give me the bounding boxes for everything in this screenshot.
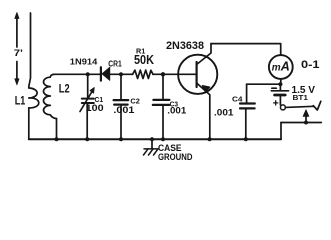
capacitor C2 plates <box>114 99 129 101</box>
svg-text:1N914: 1N914 <box>70 57 98 67</box>
capacitor C1 bottom lead <box>86 103 88 139</box>
battery BT1 short plate <box>275 94 286 97</box>
capacitor C4 bottom lead <box>245 108 247 139</box>
capacitor C2 bottom lead <box>120 105 122 140</box>
inductor L2 <box>43 74 56 118</box>
capacitor C4 plates <box>240 102 255 104</box>
capacitor C1 variable arrow <box>80 92 92 112</box>
antenna dimension arrow lower <box>15 62 19 85</box>
svg-text:.001: .001 <box>113 105 135 116</box>
node ground tap junction <box>150 137 154 141</box>
inductor L1 <box>29 87 39 108</box>
svg-text:.001: .001 <box>167 105 187 116</box>
svg-text:7': 7' <box>14 48 23 58</box>
node emitter-rail junction <box>208 137 212 141</box>
capacitor C1 plates <box>82 98 94 100</box>
svg-text:2N3638: 2N3638 <box>166 40 204 52</box>
meter M1 circle <box>269 55 293 79</box>
svg-text:C4: C4 <box>232 94 243 103</box>
wire L2 bottom lead <box>56 119 58 140</box>
svg-text:C2: C2 <box>130 96 139 105</box>
wire bottom ground rail <box>29 138 281 140</box>
svg-text:GROUND: GROUND <box>158 152 193 163</box>
switch S1 blade end tick <box>313 101 321 110</box>
battery BT1 bottom lead <box>279 96 281 105</box>
diode CR1 cathode bar <box>100 67 102 80</box>
switch S1 blade <box>285 106 314 107</box>
transistor Q1 collector <box>197 44 211 65</box>
wire C4 to battery node <box>247 83 281 85</box>
antenna wire <box>29 13 31 87</box>
node switch contact junction <box>304 121 308 125</box>
capacitor C4 top lead <box>246 84 248 103</box>
svg-text:L1: L1 <box>15 96 26 108</box>
wire step to ground rail <box>280 123 282 140</box>
battery minus sign <box>272 87 277 89</box>
svg-text:L2: L2 <box>59 84 70 96</box>
svg-text:50K: 50K <box>134 53 154 67</box>
capacitor C3 bottom lead <box>162 105 164 139</box>
battery plus sign <box>274 101 278 105</box>
wire top rail to meter <box>211 44 281 56</box>
battery BT1 long plate <box>271 90 288 92</box>
node C3-rail junction <box>161 137 165 141</box>
wire diode to R1 <box>110 73 133 75</box>
transistor Q1 emitter <box>197 83 210 139</box>
svg-text:BT1: BT1 <box>293 93 309 102</box>
node C4-rail junction <box>244 137 248 141</box>
battery BT1 top lead <box>279 84 281 90</box>
ground chassis symbol <box>151 139 153 148</box>
transistor Q1 emitter arrow <box>202 86 209 92</box>
wire meter bottom lead <box>280 79 282 84</box>
svg-text:mA: mA <box>272 60 290 74</box>
svg-text:0-1: 0-1 <box>301 59 320 71</box>
node C1 top junction <box>86 72 90 76</box>
switch S1 pivot circle <box>280 105 285 110</box>
wire top: L2 to diode <box>53 73 101 75</box>
wire R1 to transistor base <box>153 73 197 75</box>
transistor Q1 base bar <box>196 62 198 87</box>
switch S1 contact arrow <box>303 110 309 117</box>
svg-text:100: 100 <box>86 103 104 114</box>
node R1/C3/base junction <box>161 72 165 76</box>
capacitor C3 plates <box>153 99 169 101</box>
diode CR1 triangle <box>102 67 110 80</box>
node C1-rail junction <box>85 137 89 141</box>
capacitor C2 top lead <box>120 74 122 99</box>
antenna dimension arrow upper <box>15 13 19 48</box>
transistor Q1 circle <box>178 55 217 94</box>
wire L1 bottom lead <box>28 108 30 139</box>
node L2-rail junction <box>55 137 59 141</box>
resistor R1 zigzag <box>133 70 153 78</box>
svg-text:CR1: CR1 <box>108 59 122 68</box>
capacitor C3 top lead <box>162 74 164 99</box>
node C2 top junction <box>119 72 123 76</box>
wire switch return <box>281 122 321 124</box>
svg-text:.001: .001 <box>214 107 234 118</box>
node C2-rail junction <box>119 137 123 141</box>
node meter/battery junction <box>278 82 282 86</box>
capacitor C1 top lead <box>87 74 89 98</box>
